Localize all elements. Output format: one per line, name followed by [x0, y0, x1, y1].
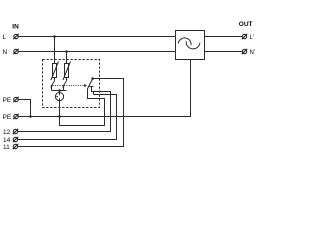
wire N' row — [205, 51, 243, 53]
svg-text:11: 11 — [3, 144, 10, 151]
wire L' row — [205, 36, 243, 38]
svg-text:N: N — [3, 49, 8, 56]
svg-text:L′: L′ — [250, 35, 255, 41]
contact NC tick — [89, 86, 93, 88]
thermal disconnector 1 — [50, 78, 55, 91]
varistor RU1 — [51, 62, 59, 81]
wire N row — [18, 51, 175, 53]
wire N drop to varistor 2 — [66, 52, 68, 64]
svg-text:OUT: OUT — [239, 21, 253, 28]
gas discharge tube F1 — [55, 91, 63, 117]
svg-text:IN: IN — [12, 24, 19, 31]
svg-text:PE: PE — [3, 114, 12, 121]
wire PE1 to PE2 — [18, 100, 30, 117]
terminal L' — [242, 34, 247, 39]
protective module dashed box — [43, 60, 100, 108]
signal contact arm — [87, 79, 92, 89]
wire L row — [18, 36, 175, 38]
svg-text:PE: PE — [3, 97, 12, 104]
terminal N' — [242, 49, 247, 54]
filter U1 box — [176, 31, 205, 60]
wire pivot to 11 — [18, 79, 124, 147]
wire link 12-14 — [93, 92, 95, 95]
node contact pivot — [91, 77, 94, 80]
filter sine symbol — [178, 38, 191, 45]
svg-text:14: 14 — [3, 137, 11, 144]
node L-branch — [53, 35, 56, 38]
svg-text:12: 12 — [3, 129, 11, 136]
node GDT to PE — [58, 115, 61, 118]
svg-text:N′: N′ — [250, 50, 256, 56]
thermal disconnector 2 — [62, 78, 67, 91]
wire PE row to filter ground — [18, 60, 190, 117]
node GDT top — [58, 89, 61, 92]
wire NO to 14 — [18, 95, 117, 140]
node N-branch — [65, 50, 68, 53]
dotted trip linkage — [53, 85, 84, 87]
svg-text:L: L — [3, 34, 7, 41]
varistor RU2 — [63, 62, 71, 81]
arrow trip linkage — [84, 84, 87, 87]
wire arm root to PE loop — [60, 89, 105, 126]
wire NC to 12 — [18, 87, 111, 132]
wire L drop to varistor 1 — [54, 37, 56, 64]
wire joining bar — [52, 90, 67, 92]
node PE junction — [29, 115, 32, 118]
